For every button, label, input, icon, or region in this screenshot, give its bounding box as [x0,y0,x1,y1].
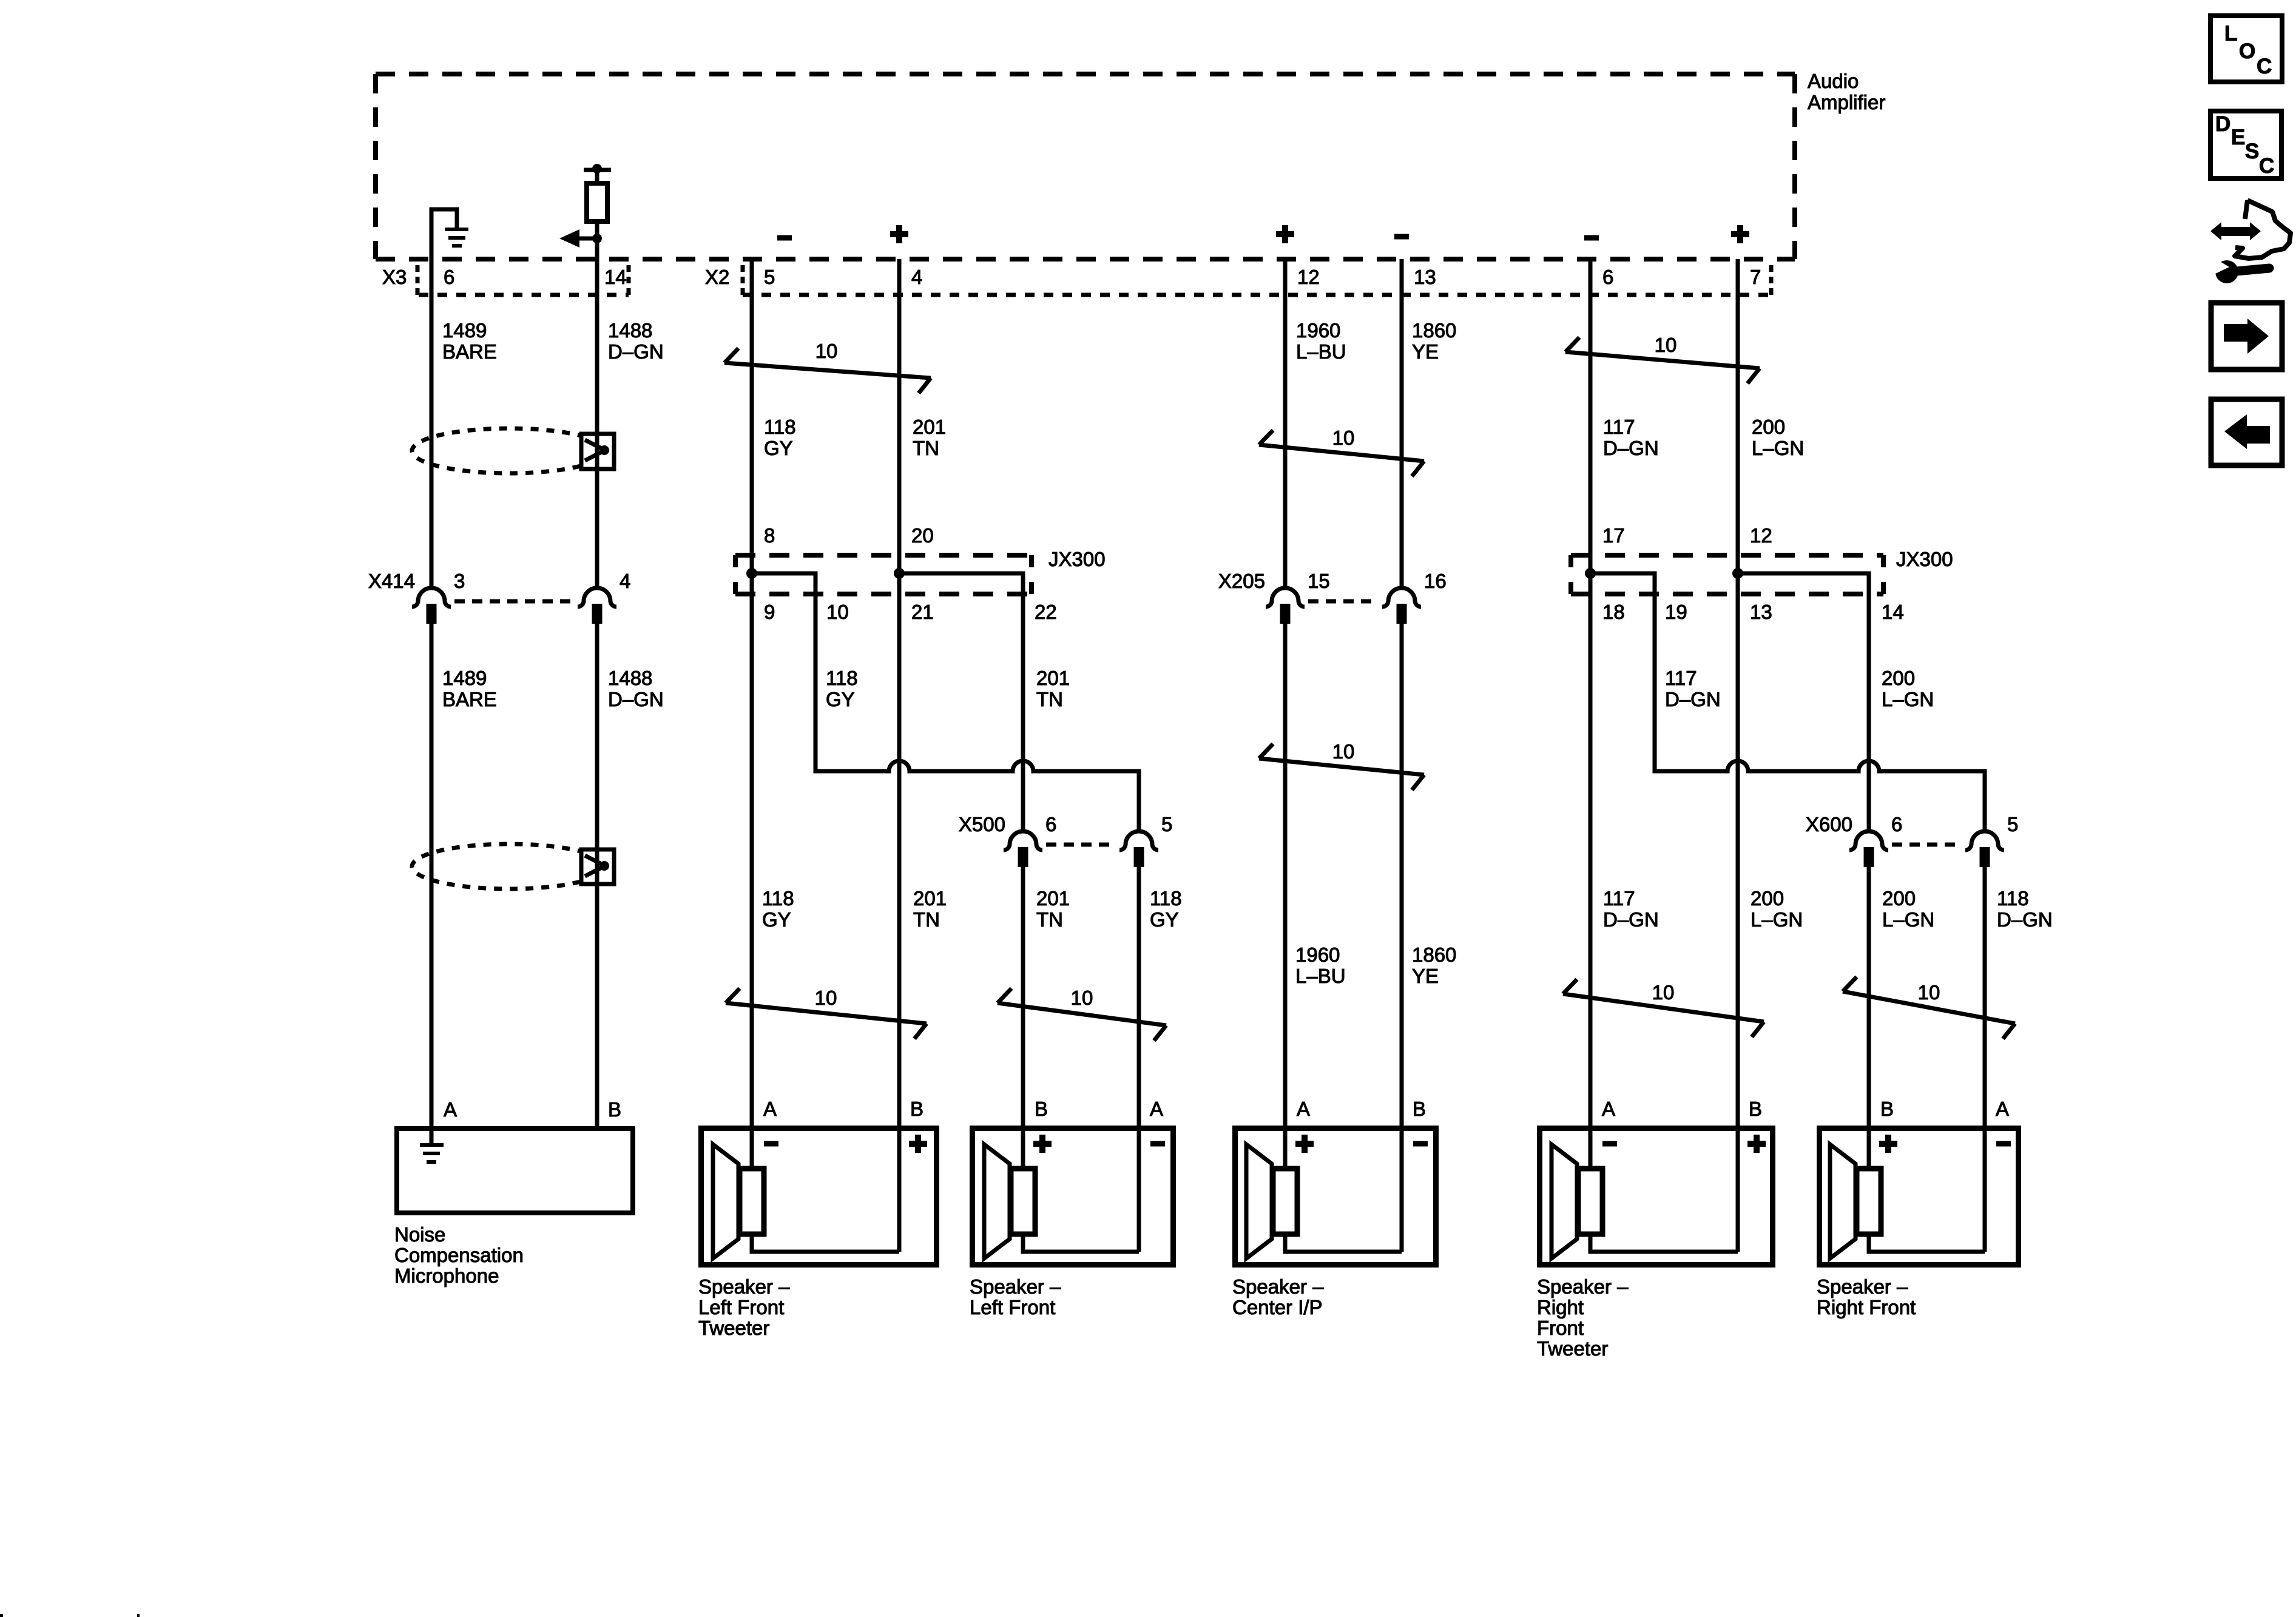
Speaker Center I/P box [1235,1129,1436,1265]
plus sign above X2 pin 4 [890,225,908,243]
junction dot at JX300 pin 20 [894,568,905,579]
svg-text:A: A [1602,1098,1615,1120]
svg-text:6: 6 [1602,266,1613,288]
svg-text:E: E [2231,126,2245,149]
+ terminal mark (Speaker Left Front Tweeter) [909,1135,927,1153]
svg-text:6: 6 [444,266,454,288]
svg-text:10: 10 [826,601,849,623]
svg-text:16: 16 [1424,570,1447,592]
chassis ground symbol inside amplifier (G) [431,209,468,262]
wire 201 TN branch (JX300 pin 22 to X500 pin 6) [899,573,1023,831]
svg-text:TN: TN [913,437,939,459]
wire label 117 D–GN (JX300 pin19 branch) [1665,667,1721,711]
svg-text:5: 5 [764,266,775,288]
internal jumper wire (Speaker Center I/P) [1285,1235,1402,1252]
svg-text:22: 22 [1035,601,1057,623]
internal jumper wire (Speaker Right Front) [1869,1235,1985,1252]
svg-text:10: 10 [1332,427,1355,449]
back arrow navigation icon box [2211,399,2282,465]
connector terminal X500 pin 5 [1119,831,1158,867]
svg-text:Left Front: Left Front [698,1296,784,1318]
svg-text:X3: X3 [382,266,407,288]
svg-text:201: 201 [1036,667,1070,689]
svg-text:6: 6 [1891,813,1902,836]
- terminal mark (Speaker Right Front) [1996,1141,2011,1147]
Speaker Right Front box [1820,1129,2019,1265]
svg-text:200: 200 [1882,887,1916,910]
Speaker Right Front Tweeter box [1540,1129,1773,1265]
speaker symbol (Speaker Right Front) [1830,1144,1881,1258]
Noise Compensation Microphone label [394,1223,524,1287]
wire label 201 TN (left front B lower) [1036,887,1070,931]
svg-text:D–GN: D–GN [1603,437,1659,459]
svg-text:B: B [1413,1098,1426,1120]
connector terminal X600 pin 6 [1849,831,1888,867]
svg-text:Front: Front [1537,1317,1584,1339]
svg-text:Right Front: Right Front [1817,1296,1916,1318]
wire label 1489 BARE (lower mic shield) [442,667,497,711]
svg-text:10: 10 [1652,981,1675,1004]
shield drain splice box (lower) [581,849,614,884]
svg-text:1489: 1489 [442,667,487,689]
svg-text:JX300: JX300 [1048,548,1106,570]
svg-text:L–GN: L–GN [1882,908,1934,931]
svg-text:118: 118 [1997,887,2029,910]
Speaker Left Front box [973,1129,1173,1265]
connector terminal X600 pin 5 [1965,831,2004,867]
shield ellipse symbol (upper, microphone cable) [412,428,606,473]
connector X414 dashed link [454,599,574,604]
wire label 1960 L–BU (lower center +) [1295,944,1346,987]
svg-text:12: 12 [1297,266,1320,288]
svg-text:14: 14 [1882,601,1904,623]
LOC navigation icon box [2210,16,2282,82]
speaker symbol (Speaker Right Front Tweeter) [1551,1144,1602,1258]
svg-text:D–GN: D–GN [608,688,664,711]
wire twist symbol (left tweeter pair upper) [724,348,931,393]
svg-text:10: 10 [1332,740,1355,763]
connector terminal X414 pin 4 [578,588,616,624]
svg-text:X2: X2 [705,266,729,288]
svg-text:A: A [1996,1098,2009,1120]
ground symbol inside microphone [420,1143,444,1164]
wire 118 GY segment (X500 pin 5 to left front speaker A) [1137,867,1141,1252]
svg-text:B: B [608,1098,621,1121]
svg-text:Compensation: Compensation [394,1244,524,1266]
svg-text:TN: TN [913,908,940,931]
Speaker Left Front Tweeter box [701,1129,937,1265]
svg-text:C: C [2259,154,2274,178]
svg-text:10: 10 [815,987,837,1009]
svg-text:19: 19 [1665,601,1687,623]
svg-text:Right: Right [1537,1296,1584,1318]
wire twist symbol (center pair upper) [1259,430,1424,476]
junction dot at JX300 pin 17 [1585,568,1596,579]
wire twist symbol (right front pair lower) [1843,977,2015,1039]
Audio Amplifier dashed outline box [376,74,1795,259]
svg-text:1488: 1488 [608,667,652,689]
svg-text:1860: 1860 [1412,944,1456,966]
wire label 117 D–GN (right tweeter -) [1603,416,1659,459]
shield splice chevron (lower) [585,856,609,876]
svg-text:21: 21 [911,601,934,623]
minus sign above X2 pin 13 [1394,234,1409,240]
wire label 200 L–GN (JX300 pin14 branch) [1882,667,1934,711]
svg-text:Microphone: Microphone [394,1264,499,1287]
svg-text:201: 201 [913,416,946,438]
svg-text:A: A [444,1098,457,1121]
svg-text:L–BU: L–BU [1296,340,1346,363]
shield splice chevron (upper) [585,440,609,461]
wire twist symbol (left front pair lower) [998,988,1166,1041]
shield ellipse symbol (lower, microphone cable) [412,844,606,889]
wire label 1489 BARE (upper mic shield) [442,319,497,363]
wire 117 D-GN branch (JX300 pin 19 to X600 pin 5) with crossover hops [1590,573,1985,831]
wire label 118 GY (JX300 pin10 branch) [826,667,858,711]
svg-text:B: B [1749,1098,1762,1120]
svg-text:Speaker –: Speaker – [1817,1275,1908,1298]
wire label 1488 D–GN (lower mic signal) [608,667,664,711]
wire 1960 L-BU segment (X2 pin 12 to X205 pin 15) [1283,259,1288,588]
svg-text:TN: TN [1036,908,1063,931]
svg-text:200: 200 [1751,887,1784,910]
svg-text:1860: 1860 [1412,319,1456,342]
+ terminal mark (Speaker Right Front) [1879,1135,1897,1153]
wire 1488 D-GN segment (X414 pin 4 to microphone) [595,624,599,1129]
svg-text:Amplifier: Amplifier [1808,91,1885,113]
svg-text:14: 14 [604,266,627,288]
shield drain splice box (upper) [581,434,614,469]
connector X205 dashed link [1308,599,1379,604]
svg-text:20: 20 [911,524,934,547]
connector terminal X205 pin 15 [1266,588,1305,624]
wire label 118 GY (left tweeter A lower) [762,887,794,931]
svg-text:200: 200 [1752,416,1785,438]
minus sign above X2 pin 5 [777,235,792,241]
svg-text:L–BU: L–BU [1295,965,1346,987]
connector X500 dashed link [1046,843,1116,847]
svg-text:4: 4 [911,266,922,288]
internal jumper wire (Speaker Left Front) [1023,1235,1139,1252]
svg-text:X205: X205 [1218,570,1265,592]
svg-text:8: 8 [764,524,775,547]
forward arrow navigation icon box [2211,303,2282,370]
svg-text:12: 12 [1750,524,1772,547]
wiper arrow tap on resistor output [559,229,602,248]
junction block JX300 (left) dashed box [735,555,1032,594]
connector X3 separator tick [416,265,420,297]
wire label 200 L–GN (right tweeter +) [1752,416,1804,459]
plus sign above X2 pin 12 [1276,225,1294,243]
svg-text:YE: YE [1412,965,1439,987]
speaker symbol (Speaker Left Front) [984,1144,1035,1258]
wire label 1860 YE (lower center -) [1412,944,1456,987]
svg-text:Speaker –: Speaker – [1537,1275,1629,1298]
wire 201 TN segment (X2 pin 4 through JX300 pin 21 to left front tweeter B) [897,259,902,1252]
svg-text:JX300: JX300 [1896,548,1953,570]
- terminal mark (Speaker Left Front) [1150,1141,1165,1147]
plus sign above X2 pin 7 [1731,225,1749,243]
svg-text:4: 4 [620,570,630,592]
Audio Amplifier label [1808,70,1885,113]
wire label 118 GY (left tweeter -) [764,416,796,459]
page artifact dot bottom-left [0,1614,3,1617]
svg-text:10: 10 [1655,334,1677,356]
svg-text:Audio: Audio [1808,70,1859,92]
wire 118 D-GN segment (X600 pin 5 to right front speaker A) [1983,867,1987,1252]
svg-text:L–GN: L–GN [1751,908,1803,931]
wire label 1960 L–BU (upper center +) [1296,319,1346,363]
svg-text:13: 13 [1414,266,1436,288]
svg-text:Speaker –: Speaker – [1232,1275,1324,1298]
svg-text:B: B [1035,1098,1048,1120]
svg-text:D–GN: D–GN [608,340,664,363]
svg-text:18: 18 [1602,601,1625,623]
- terminal mark (Speaker Right Front Tweeter) [1602,1141,1617,1147]
wire 201 TN segment (X500 pin 6 to left front speaker B) [1021,867,1025,1168]
svg-text:7: 7 [1750,266,1761,288]
svg-text:201: 201 [1036,887,1070,910]
wire label 201 TN (left tweeter +) [913,416,946,459]
svg-text:BARE: BARE [442,688,497,711]
DESC navigation icon box [2210,111,2281,178]
svg-text:B: B [910,1098,923,1120]
svg-text:A: A [1297,1098,1310,1120]
svg-text:5: 5 [2007,813,2018,836]
speaker symbol (Speaker Center I/P) [1246,1144,1297,1258]
svg-text:O: O [2239,39,2255,63]
svg-text:Left Front: Left Front [970,1296,1055,1318]
wire 1860 YE segment (X205 pin 16 to center speaker B) [1400,624,1404,1252]
svg-text:GY: GY [826,688,855,711]
Noise Compensation Microphone box [397,1129,633,1213]
svg-text:Noise: Noise [394,1223,445,1246]
wire 118 GY segment (X2 pin 5 through JX300 pin 9 to left front tweeter A) [750,259,754,1168]
- terminal mark (Speaker Left Front Tweeter) [764,1141,778,1147]
svg-text:TN: TN [1036,688,1063,711]
wire label 118 D–GN (right front A lower) [1997,887,2053,931]
wire 1489 BARE segment (X414 pin 3 to microphone) [430,624,434,1145]
svg-text:D–GN: D–GN [1997,908,2053,931]
svg-text:A: A [763,1098,777,1120]
page artifact dot bottom [137,1614,140,1617]
wire label 201 TN (JX300 pin22 branch) [1036,667,1070,711]
svg-text:GY: GY [764,437,793,459]
wire label 200 L–GN (right tweeter B lower) [1751,887,1803,931]
internal jumper wire (Speaker Right Front Tweeter) [1590,1235,1738,1252]
+ terminal mark (Speaker Left Front) [1033,1135,1052,1153]
svg-text:117: 117 [1603,416,1635,438]
svg-text:15: 15 [1308,570,1330,592]
wire 1960 L-BU segment (X205 pin 15 to center speaker A) [1283,624,1288,1168]
svg-text:BARE: BARE [442,340,497,363]
wire 200 L-GN branch (JX300 pin 14 to X600 pin 6) [1738,573,1869,831]
svg-text:L–GN: L–GN [1882,688,1934,711]
internal jumper wire (Speaker Left Front Tweeter) [752,1235,899,1252]
minus sign above X2 pin 6 [1584,235,1599,241]
svg-text:X414: X414 [368,570,415,592]
connector terminal X205 pin 16 [1382,588,1421,624]
junction block JX300 (right) dashed box [1571,555,1883,594]
wire label 1860 YE (upper center -) [1412,319,1456,363]
wire 200 L-GN segment (X600 pin 6 to right front speaker B) [1867,867,1871,1168]
+ terminal mark (Speaker Right Front Tweeter) [1747,1135,1766,1153]
svg-text:10: 10 [1918,981,1940,1004]
svg-text:S: S [2245,140,2259,163]
svg-text:YE: YE [1412,340,1439,363]
connector terminal X500 pin 6 [1004,831,1042,867]
svg-text:200: 200 [1882,667,1915,689]
wire 1860 YE segment (X2 pin 13 to X205 pin 16) [1400,259,1404,588]
connector terminal X414 pin 3 [412,588,451,624]
connector X3 body dotted line [419,293,629,297]
svg-text:D–GN: D–GN [1603,908,1659,931]
wire 1489 BARE segment (X3 pin 6 to X414 pin 3) [430,259,434,588]
wire twist symbol (left tweeter pair lower) [726,988,927,1039]
svg-text:3: 3 [454,570,465,592]
svg-text:10: 10 [1071,987,1093,1009]
+ terminal mark (Speaker Center I/P) [1295,1135,1314,1153]
wire twist symbol (right tweeter pair upper) [1565,337,1760,383]
svg-text:1489: 1489 [442,319,487,342]
wire label 117 D–GN (right tweeter A lower) [1603,887,1659,931]
svg-text:L–GN: L–GN [1752,437,1804,459]
svg-text:A: A [1150,1098,1163,1120]
junction dot at JX300 pin 12 [1732,568,1743,579]
connector X2 body dotted line [743,293,1771,297]
svg-text:5: 5 [1161,813,1172,836]
svg-text:118: 118 [826,667,858,689]
connector X2 right end tick [1769,265,1774,297]
resistor symbol inside amplifier [584,164,611,262]
connector X2 separator tick [741,265,745,297]
wire label 200 L–GN (right front B lower) [1882,887,1934,931]
svg-text:L: L [2224,22,2237,46]
svg-text:118: 118 [764,416,796,438]
svg-text:D: D [2215,112,2230,136]
svg-text:17: 17 [1602,524,1625,547]
junction dot at JX300 pin 8 [746,568,757,579]
wire label 118 GY (left front A lower) [1150,887,1182,931]
wire 118 GY branch (JX300 pin 10 to X500 pin 5) with crossover hops [752,573,1139,831]
svg-text:118: 118 [1150,887,1182,910]
svg-text:201: 201 [913,887,947,910]
svg-text:9: 9 [764,601,775,623]
wire twist symbol (center pair lower) [1259,744,1424,790]
svg-text:1960: 1960 [1296,319,1340,342]
svg-text:117: 117 [1665,667,1697,689]
connector X600 dashed link [1892,843,1962,847]
svg-text:Tweeter: Tweeter [1537,1337,1608,1360]
svg-text:Speaker –: Speaker – [698,1275,790,1298]
wire label 1488 D–GN (upper mic signal) [608,319,664,363]
svg-text:C: C [2257,55,2272,78]
svg-text:117: 117 [1603,887,1635,910]
svg-text:6: 6 [1045,813,1056,836]
svg-text:118: 118 [762,887,794,910]
wire label 201 TN (left tweeter B lower) [913,887,947,931]
connector X3 right end tick [627,265,631,297]
svg-text:13: 13 [1750,601,1772,623]
svg-text:B: B [1880,1098,1894,1120]
svg-text:Center I/P: Center I/P [1232,1296,1323,1318]
vehicle service icon (double arrow, body outline, wrench) [2210,200,2291,283]
svg-text:X600: X600 [1806,813,1852,836]
svg-text:X500: X500 [959,813,1005,836]
svg-text:1960: 1960 [1295,944,1340,966]
svg-text:D–GN: D–GN [1665,688,1721,711]
svg-text:GY: GY [1150,908,1179,931]
wire 1488 D-GN segment (X3 pin 14 to X414 pin 4) [595,259,599,588]
svg-text:Speaker –: Speaker – [970,1275,1061,1298]
speaker symbol (Speaker Left Front Tweeter) [713,1144,764,1258]
wire twist symbol (right tweeter pair lower) [1563,979,1764,1037]
svg-text:Tweeter: Tweeter [698,1317,769,1339]
wire 200 L-GN segment (X2 pin 7 through JX300 pin 13 to right front tweeter B) [1736,259,1740,1252]
svg-text:10: 10 [815,340,838,362]
wire 117 D-GN segment (X2 pin 6 through JX300 pin 18 to right front tweeter A) [1589,259,1593,1168]
- terminal mark (Speaker Center I/P) [1413,1141,1428,1147]
svg-text:1488: 1488 [608,319,652,342]
svg-text:GY: GY [762,908,791,931]
